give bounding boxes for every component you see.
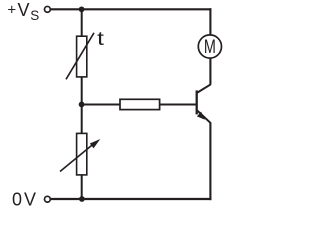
wire right vertical (top rail to motor)	[209, 8, 211, 36]
terminal 0 V	[45, 196, 51, 202]
wire motor to collector corner	[209, 57, 211, 85]
label 0 V	[12, 190, 36, 210]
svg-text:+: +	[7, 2, 16, 19]
svg-text:t: t	[97, 28, 105, 50]
wire bottom rail	[51, 198, 212, 200]
transistor Q1 (NPN)	[197, 84, 211, 123]
terminal +VS	[45, 6, 51, 12]
wire emitter corner to bottom rail	[209, 123, 211, 201]
wire base (divider tap to transistor base)	[82, 103, 196, 105]
wire left branch: variable resistor to bottom rail	[81, 175, 83, 200]
junction top rail / divider	[79, 6, 85, 12]
svg-text:V: V	[18, 0, 30, 20]
thermistor (body)	[66, 33, 94, 80]
label t (thermistor)	[97, 28, 105, 50]
svg-text:M: M	[204, 36, 216, 58]
junction bottom rail / divider	[79, 196, 85, 202]
motor M	[198, 35, 221, 58]
wire left branch: thermistor to variable resistor	[81, 77, 83, 135]
wire left branch: top rail to thermistor	[81, 9, 83, 37]
wire top rail	[51, 8, 212, 10]
junction divider tap	[79, 102, 85, 108]
svg-text:V: V	[24, 190, 36, 210]
resistor (base resistor)	[120, 99, 160, 109]
svg-text:S: S	[30, 8, 39, 23]
variable resistor (body with arrow)	[60, 133, 100, 175]
svg-text:0: 0	[12, 190, 22, 210]
supply label +VS	[7, 0, 39, 23]
